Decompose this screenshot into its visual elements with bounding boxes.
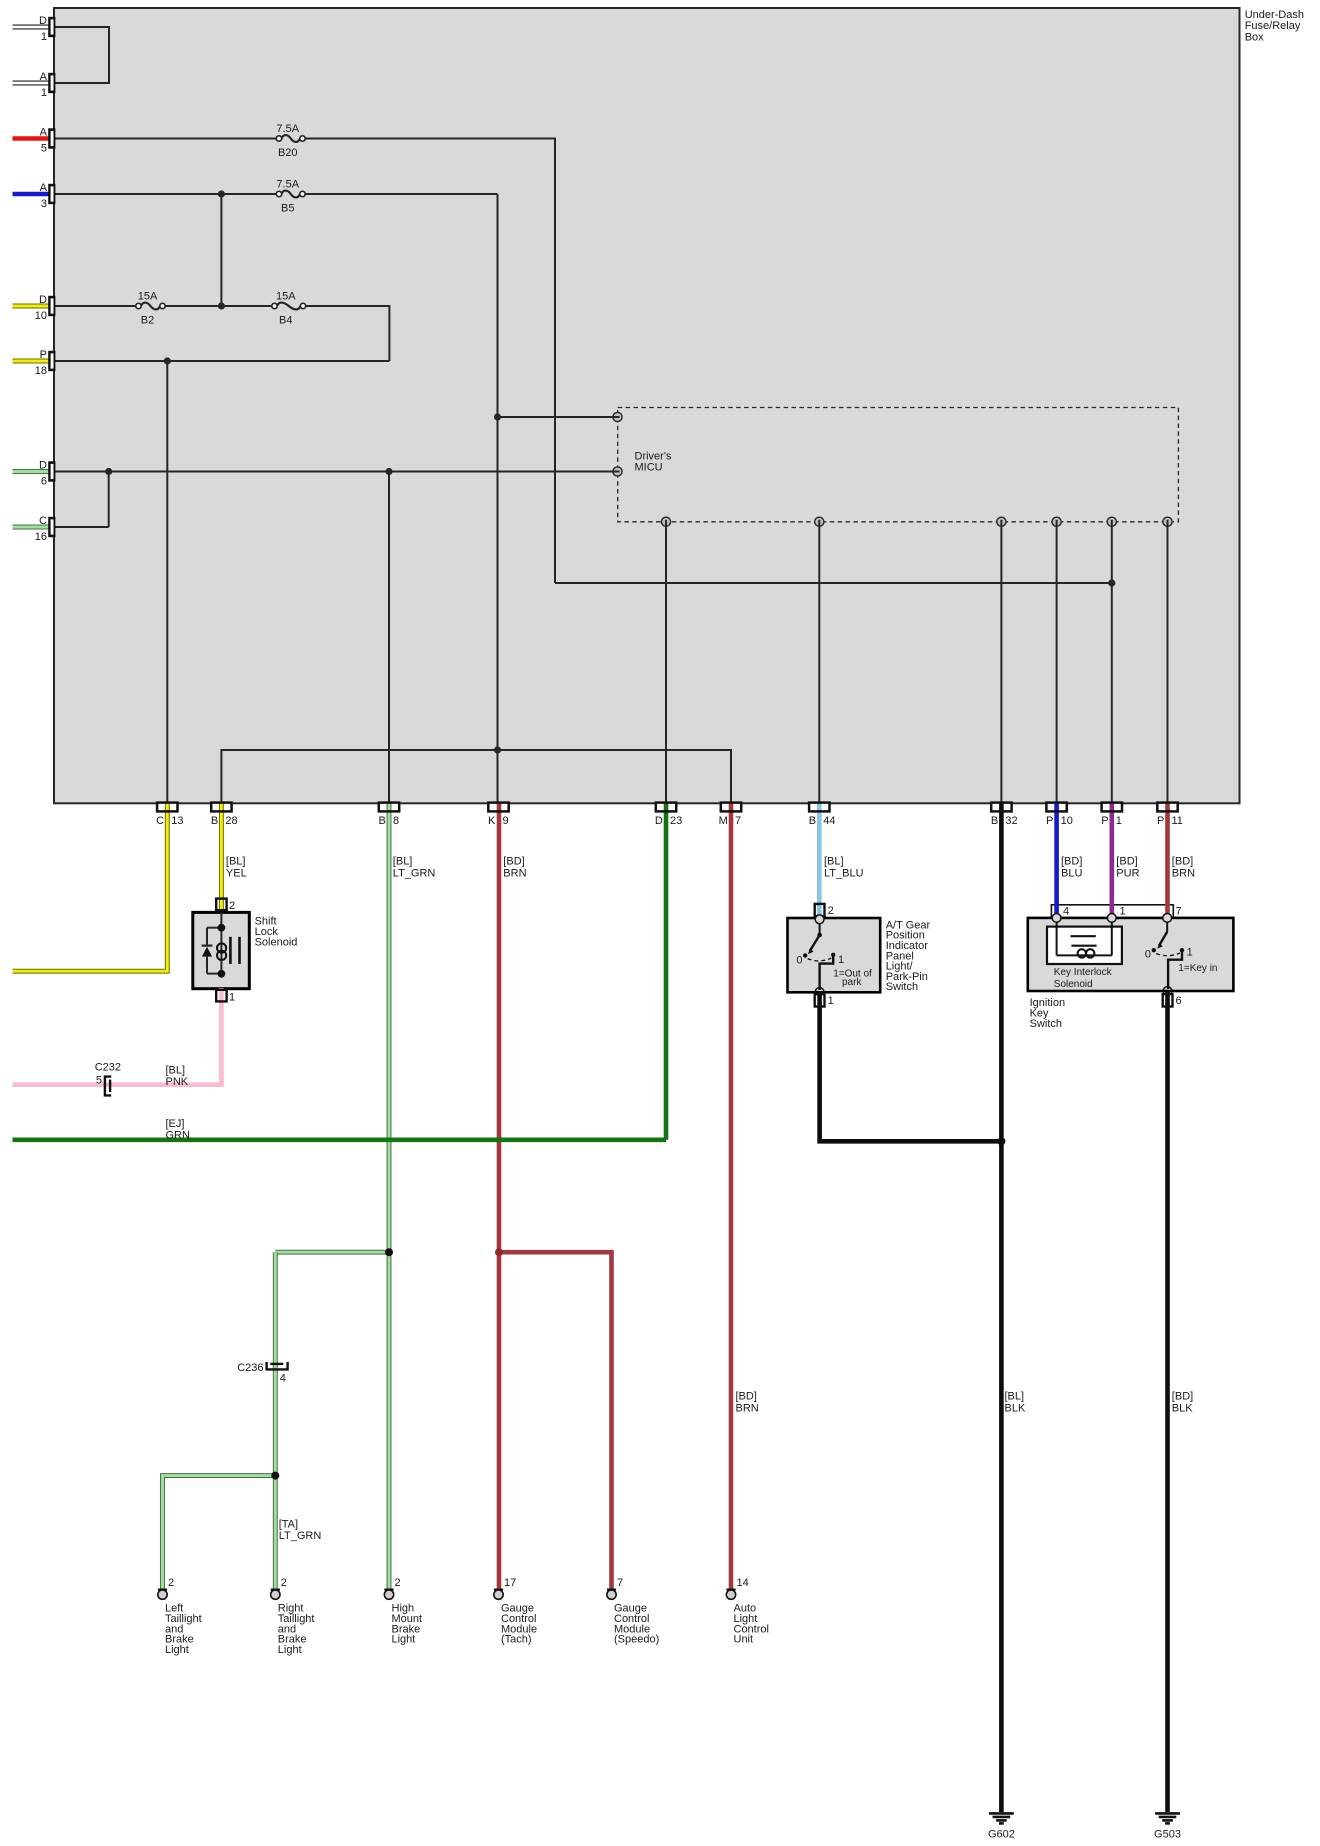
svg-text:7: 7	[1176, 905, 1182, 917]
svg-text:44: 44	[823, 815, 835, 827]
svg-text:6: 6	[1176, 995, 1182, 1007]
svg-text:BRN: BRN	[1172, 867, 1195, 879]
svg-text:Fuse/Relay: Fuse/Relay	[1245, 20, 1301, 32]
svg-text:D: D	[655, 815, 663, 827]
svg-text:C232: C232	[95, 1061, 121, 1073]
svg-text:Unit: Unit	[734, 1634, 754, 1646]
svg-text:D: D	[39, 459, 47, 471]
svg-text:11: 11	[1172, 815, 1183, 827]
svg-text:4: 4	[280, 1372, 286, 1384]
svg-text:5: 5	[41, 143, 47, 155]
svg-text:(Speedo): (Speedo)	[614, 1634, 659, 1646]
svg-text:2: 2	[828, 905, 834, 917]
svg-text:[BD]: [BD]	[736, 1391, 757, 1403]
svg-text:2: 2	[168, 1577, 174, 1589]
svg-text:P: P	[1101, 815, 1108, 827]
svg-text:C: C	[156, 815, 164, 827]
svg-text:2: 2	[395, 1577, 401, 1589]
svg-text:9: 9	[503, 815, 509, 827]
svg-text:[BL]: [BL]	[393, 856, 413, 868]
svg-text:BLK: BLK	[1172, 1403, 1193, 1415]
svg-text:B: B	[991, 815, 998, 827]
svg-text:28: 28	[225, 815, 237, 827]
svg-text:BRN: BRN	[503, 867, 526, 879]
svg-text:2: 2	[281, 1577, 287, 1589]
svg-text:7: 7	[735, 815, 741, 827]
svg-text:[TA]: [TA]	[279, 1518, 298, 1530]
svg-text:1: 1	[828, 995, 834, 1007]
svg-text:0: 0	[1145, 948, 1151, 960]
svg-text:YEL: YEL	[226, 867, 247, 879]
svg-text:GRN: GRN	[166, 1130, 191, 1142]
svg-text:Switch: Switch	[1030, 1018, 1062, 1030]
svg-text:0: 0	[796, 954, 802, 966]
svg-text:1: 1	[41, 31, 47, 43]
svg-text:B2: B2	[141, 315, 154, 327]
svg-text:LT_BLU: LT_BLU	[824, 867, 864, 879]
svg-text:2: 2	[229, 900, 235, 912]
svg-text:Under-Dash: Under-Dash	[1245, 9, 1304, 21]
svg-text:[BL]: [BL]	[226, 856, 246, 868]
svg-text:6: 6	[41, 476, 47, 488]
svg-text:15A: 15A	[138, 291, 158, 303]
svg-text:B4: B4	[279, 315, 292, 327]
svg-text:18: 18	[35, 365, 47, 377]
svg-text:23: 23	[670, 815, 682, 827]
svg-text:Solenoid: Solenoid	[1054, 979, 1093, 990]
svg-text:[BD]: [BD]	[1172, 856, 1193, 868]
svg-text:7.5A: 7.5A	[276, 123, 299, 135]
svg-text:P: P	[1157, 815, 1164, 827]
svg-text:Light: Light	[165, 1644, 189, 1656]
svg-text:park: park	[842, 977, 862, 988]
svg-text:3: 3	[41, 198, 47, 210]
svg-text:PUR: PUR	[1116, 867, 1139, 879]
svg-text:B: B	[378, 815, 385, 827]
svg-text:K: K	[488, 815, 496, 827]
svg-text:LT_GRN: LT_GRN	[393, 867, 436, 879]
svg-text:[BL]: [BL]	[166, 1064, 186, 1076]
svg-text:1: 1	[1120, 905, 1126, 917]
svg-text:PNK: PNK	[166, 1076, 189, 1088]
svg-text:B20: B20	[278, 147, 298, 159]
svg-text:1: 1	[229, 992, 235, 1004]
svg-text:P: P	[40, 349, 47, 361]
svg-text:32: 32	[1005, 815, 1017, 827]
svg-text:5: 5	[96, 1075, 102, 1087]
svg-text:[BL]: [BL]	[824, 856, 844, 868]
svg-text:[BD]: [BD]	[1116, 856, 1137, 868]
svg-text:A: A	[40, 126, 48, 138]
svg-text:10: 10	[35, 310, 47, 322]
svg-text:1: 1	[41, 87, 47, 99]
svg-text:P: P	[1046, 815, 1053, 827]
svg-text:B: B	[809, 815, 816, 827]
svg-text:17: 17	[504, 1577, 516, 1589]
svg-text:C236: C236	[237, 1362, 263, 1374]
svg-text:LT_GRN: LT_GRN	[279, 1530, 322, 1542]
svg-text:8: 8	[393, 815, 399, 827]
svg-text:1: 1	[1187, 947, 1193, 959]
svg-text:(Tach): (Tach)	[501, 1634, 532, 1646]
svg-text:1: 1	[838, 954, 844, 966]
svg-text:Key Interlock: Key Interlock	[1054, 967, 1113, 978]
svg-text:4: 4	[1063, 905, 1069, 917]
svg-text:1=Key in: 1=Key in	[1178, 963, 1217, 974]
svg-text:15A: 15A	[276, 291, 296, 303]
svg-text:A: A	[40, 182, 48, 194]
svg-text:Solenoid: Solenoid	[255, 936, 298, 948]
svg-text:[BD]: [BD]	[1172, 1391, 1193, 1403]
svg-text:G602: G602	[988, 1829, 1015, 1841]
svg-text:Box: Box	[1245, 32, 1264, 44]
svg-text:7.5A: 7.5A	[276, 179, 299, 191]
svg-text:[BL]: [BL]	[1005, 1391, 1025, 1403]
svg-text:BLK: BLK	[1005, 1403, 1026, 1415]
svg-text:A: A	[40, 71, 48, 83]
svg-text:G503: G503	[1154, 1829, 1181, 1841]
svg-text:1: 1	[1116, 815, 1122, 827]
svg-text:B: B	[211, 815, 218, 827]
svg-text:D: D	[39, 294, 47, 306]
svg-text:13: 13	[171, 815, 183, 827]
svg-text:D: D	[39, 15, 47, 27]
svg-text:Light: Light	[278, 1644, 302, 1656]
svg-text:BRN: BRN	[736, 1403, 759, 1415]
svg-text:10: 10	[1061, 815, 1073, 827]
svg-text:[EJ]: [EJ]	[166, 1118, 185, 1130]
svg-text:MICU: MICU	[635, 462, 663, 474]
svg-text:M: M	[719, 815, 728, 827]
svg-text:16: 16	[35, 531, 47, 543]
svg-text:7: 7	[617, 1577, 623, 1589]
svg-text:14: 14	[737, 1577, 749, 1589]
svg-text:C: C	[39, 515, 47, 527]
svg-text:B5: B5	[281, 203, 294, 215]
svg-text:BLU: BLU	[1061, 867, 1082, 879]
svg-text:Switch: Switch	[886, 981, 918, 993]
svg-text:Light: Light	[392, 1634, 416, 1646]
svg-text:[BD]: [BD]	[1061, 856, 1082, 868]
svg-text:[BD]: [BD]	[503, 856, 524, 868]
